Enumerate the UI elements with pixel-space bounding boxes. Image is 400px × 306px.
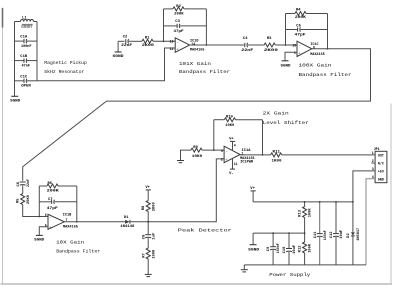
svg-text:100nF: 100nF <box>21 45 32 49</box>
svg-text:Peak Detector: Peak Detector <box>178 227 232 233</box>
svg-text:Power Supply: Power Supply <box>269 272 310 278</box>
wire IC1A output <box>240 154 271 156</box>
wire feedback right vertical IC1A <box>262 120 264 155</box>
svg-text:C8: C8 <box>142 234 146 239</box>
svg-text:2K00: 2K00 <box>152 202 156 212</box>
svg-text:C1A: C1A <box>20 36 28 40</box>
svg-text:OUT: OUT <box>378 154 384 158</box>
svg-text:C4: C4 <box>243 37 248 41</box>
svg-text:SGND: SGND <box>34 239 45 243</box>
svg-text:6: 6 <box>45 213 47 217</box>
node stage2 feedback left <box>163 40 165 42</box>
diode D1 <box>120 216 135 229</box>
svg-text:10K0: 10K0 <box>192 155 203 159</box>
svg-text:C3: C3 <box>175 20 180 24</box>
wire IC1B output <box>64 221 125 223</box>
ground SGND stage2 <box>113 41 125 59</box>
svg-text:47pF: 47pF <box>295 33 307 37</box>
wire power top rail <box>253 201 353 203</box>
svg-text:10uF: 10uF <box>340 229 344 239</box>
svg-text:R10: R10 <box>226 116 234 120</box>
svg-text:D1: D1 <box>124 216 129 220</box>
ground SGND stage3 <box>281 52 298 68</box>
svg-text:MAX4165: MAX4165 <box>190 49 205 53</box>
resistor R3 <box>264 37 279 53</box>
svg-text:47pF: 47pF <box>47 207 59 211</box>
svg-text:2K00: 2K00 <box>264 49 279 53</box>
svg-text:11: 11 <box>234 162 238 166</box>
wire feedback left vertical stage4 <box>38 186 40 217</box>
svg-text:-: - <box>177 41 179 45</box>
capacitor C1C <box>15 75 38 88</box>
diode D2 <box>347 227 361 265</box>
svg-text:IC1PWR: IC1PWR <box>240 161 254 165</box>
svg-text:22nF: 22nF <box>241 49 254 53</box>
wire tank top right <box>34 21 38 23</box>
power V+ IC1A pin4 <box>229 138 236 151</box>
svg-text:L1: L1 <box>22 16 27 20</box>
wire feedback top rail left IC1A <box>214 119 225 121</box>
page border bottom <box>1 283 393 285</box>
ground GND power supply <box>241 265 248 272</box>
svg-text:MAX4165: MAX4165 <box>63 226 79 230</box>
wire D1 to junction to IC1A riser <box>130 159 224 222</box>
svg-text:R7: R7 <box>142 253 146 258</box>
wire R1 to IC1D - input <box>153 40 175 42</box>
svg-text:101X Gain: 101X Gain <box>179 61 211 67</box>
ground SGND stage4 <box>34 227 48 243</box>
svg-text:10X Gain: 10X Gain <box>56 239 84 245</box>
ground R9 left <box>177 150 191 163</box>
svg-text:100nF: 100nF <box>277 243 281 254</box>
wire connector GND feed <box>366 179 375 265</box>
svg-text:SGND: SGND <box>10 100 21 104</box>
svg-text:R13: R13 <box>299 209 303 217</box>
svg-text:13: 13 <box>170 40 174 44</box>
svg-text:2: 2 <box>221 158 223 162</box>
svg-text:-: - <box>298 45 300 49</box>
wire feedback mid rail right stage2 <box>180 25 206 27</box>
svg-text:1N5817: 1N5817 <box>357 227 361 241</box>
svg-text:100X Gain: 100X Gain <box>299 62 332 68</box>
wire C2 to R1 <box>129 40 142 42</box>
resistor R5 <box>17 194 31 205</box>
power V+ peak detector <box>145 186 151 201</box>
wire feedback top rail right stage4 <box>58 185 77 187</box>
resistor R6 <box>47 182 60 194</box>
ground SGND power supply <box>248 233 260 252</box>
svg-text:C12: C12 <box>330 231 334 239</box>
svg-text:1uF: 1uF <box>152 232 156 240</box>
svg-text:C2: C2 <box>123 36 128 40</box>
wire feedback right vertical stage4 <box>76 186 78 222</box>
wire C4 to R3 <box>248 44 264 46</box>
capacitor C3 <box>174 20 185 34</box>
capacitor C9 <box>267 233 281 265</box>
wire tank output to IC1D + input <box>37 48 175 81</box>
op-amp IC1C <box>292 41 325 57</box>
svg-text:R8: R8 <box>142 205 146 210</box>
svg-text:GND: GND <box>378 177 384 181</box>
wire feedback mid rail right stage3 <box>301 29 328 31</box>
resistor R9 <box>191 146 203 159</box>
wire feedback mid rail right stage4 <box>55 201 77 203</box>
svg-text:100K: 100K <box>152 249 156 259</box>
node stage3 feedback right <box>327 48 329 50</box>
capacitor C10 <box>283 233 297 265</box>
power V+ supply rail stub <box>250 187 255 202</box>
wire junction to C8 <box>147 222 149 235</box>
node power rail taps <box>272 201 354 234</box>
op-amp IC1A <box>221 146 255 164</box>
svg-text:R4: R4 <box>296 9 301 13</box>
svg-text:10uF: 10uF <box>293 244 297 254</box>
node stage4 feedback left <box>38 216 40 218</box>
capacitor C7 <box>47 198 59 211</box>
svg-text:N/C: N/C <box>378 162 384 166</box>
svg-text:R1: R1 <box>145 37 150 41</box>
svg-text:3: 3 <box>372 167 374 171</box>
svg-text:V+: V+ <box>145 186 150 190</box>
svg-text:OPEN: OPEN <box>21 85 31 89</box>
svg-text:-: - <box>225 150 227 154</box>
svg-text:MAX4165: MAX4165 <box>310 53 325 57</box>
svg-text:C9: C9 <box>267 246 271 251</box>
wire feedback mid rail left stage4 <box>39 201 51 203</box>
svg-text:R2: R2 <box>176 5 181 9</box>
resistor R4 <box>295 9 307 21</box>
svg-text:4: 4 <box>234 143 236 147</box>
svg-text:R11: R11 <box>273 151 281 155</box>
wire connector +5V feed <box>353 171 375 232</box>
svg-text:-: - <box>49 216 51 220</box>
resistor R11 <box>271 151 283 164</box>
svg-text:10: 10 <box>292 43 296 47</box>
op-amp IC1B <box>45 213 79 230</box>
svg-text:Magnetic Pickup: Magnetic Pickup <box>44 60 87 66</box>
wire C6 to R5 <box>22 185 24 193</box>
wire feedback top rail right stage2 <box>184 8 206 10</box>
svg-text:R12: R12 <box>299 245 303 253</box>
svg-text:+5V: +5V <box>378 169 384 173</box>
svg-text:47pF: 47pF <box>174 30 185 34</box>
svg-text:Level Shifter: Level Shifter <box>263 120 309 126</box>
wire feedback left vertical IC1A <box>213 120 215 150</box>
svg-text:22nF: 22nF <box>27 178 31 187</box>
svg-text:1: 1 <box>372 151 374 155</box>
wire feedback right vertical stage3 <box>327 14 329 49</box>
svg-text:C6: C6 <box>17 181 21 186</box>
capacitor C5 <box>295 24 307 37</box>
svg-text:R6: R6 <box>48 182 53 186</box>
svg-text:200K: 200K <box>174 12 184 16</box>
wire feedback left vertical stage3 <box>285 14 287 46</box>
svg-text:C10: C10 <box>283 246 287 254</box>
resistor R7 <box>142 248 156 259</box>
power V- IC1A pin11 <box>229 159 238 176</box>
wire feedback left vertical stage2 <box>163 9 165 41</box>
svg-text:R3: R3 <box>267 37 272 41</box>
wire tank top <box>15 21 21 23</box>
svg-text:C5: C5 <box>296 24 301 28</box>
wire tank left rail <box>14 22 16 97</box>
capacitor C1A <box>15 36 38 49</box>
svg-text:C1C: C1C <box>20 75 28 79</box>
capacitor C1B <box>15 55 38 68</box>
svg-text:4: 4 <box>372 175 374 179</box>
capacitor C4 <box>241 37 254 53</box>
connector JP1 <box>371 147 387 183</box>
inductor L1 <box>21 16 34 30</box>
svg-text:R5: R5 <box>17 198 21 203</box>
svg-text:C7: C7 <box>48 198 53 202</box>
wire feedback top rail left stage2 <box>164 8 173 10</box>
op-amp IC1D <box>170 38 206 53</box>
svg-text:1K00: 1K00 <box>272 160 283 164</box>
svg-text:12: 12 <box>170 47 174 51</box>
wire feedback mid rail left stage2 <box>164 25 177 27</box>
ground GND peak detector <box>145 259 152 277</box>
svg-text:200K: 200K <box>295 16 307 20</box>
svg-text:3: 3 <box>221 149 223 153</box>
svg-text:Bandpass Filter: Bandpass Filter <box>299 72 352 78</box>
svg-text:SGND: SGND <box>113 55 125 59</box>
svg-text:5kHz Resonator: 5kHz Resonator <box>44 69 84 75</box>
capacitor C2 <box>121 36 133 48</box>
wire R9 to IC1A - input <box>202 149 224 151</box>
wire sgnd2 to C2 <box>118 40 124 42</box>
svg-text:2K00: 2K00 <box>142 44 155 48</box>
wire R5 to IC1B - input <box>23 205 48 217</box>
wire power bottom rail <box>244 264 366 266</box>
ground SGND tank <box>10 96 21 103</box>
svg-text:10K0: 10K0 <box>225 124 235 128</box>
svg-text:D2: D2 <box>347 233 351 238</box>
node stage2 feedback right <box>206 44 208 46</box>
resistor R8 <box>142 201 156 212</box>
svg-text:R9: R9 <box>193 146 198 150</box>
svg-text:100K: 100K <box>309 243 313 253</box>
svg-text:Bandpass Filter: Bandpass Filter <box>179 69 230 75</box>
svg-text:7: 7 <box>65 218 67 222</box>
capacitor C8 <box>142 232 156 240</box>
svg-text:6m8H: 6m8H <box>21 25 32 30</box>
resistor R12 <box>299 233 313 265</box>
capacitor C12 <box>330 202 344 265</box>
wire tank right rail <box>36 22 38 81</box>
svg-text:SGND: SGND <box>248 248 260 252</box>
svg-text:9: 9 <box>294 51 296 55</box>
svg-text:C1B: C1B <box>20 55 28 59</box>
resistor R13 <box>299 202 313 233</box>
svg-text:200K: 200K <box>47 189 60 193</box>
svg-text:Bandpass Filter: Bandpass Filter <box>56 248 100 254</box>
wire IC1D output <box>190 44 244 46</box>
wire feedback right vertical stage2 <box>205 9 207 45</box>
page border left <box>2 8 4 285</box>
resistor R2 <box>173 5 184 16</box>
svg-text:2X Gain: 2X Gain <box>263 111 289 117</box>
resistor R10 <box>224 116 235 129</box>
svg-text:1N4148: 1N4148 <box>120 225 135 229</box>
node stage3 feedback left <box>285 44 287 46</box>
svg-text:22nF: 22nF <box>121 44 133 48</box>
node stage4 feedback right <box>76 221 78 223</box>
wire feedback mid rail left stage3 <box>286 29 298 31</box>
node level shifter feedback left <box>213 149 215 151</box>
wire power mid rail SGND <box>253 232 305 234</box>
svg-text:47nF: 47nF <box>22 64 31 68</box>
node level shifter feedback right <box>262 154 264 156</box>
svg-text:C11: C11 <box>314 231 318 239</box>
page border right <box>390 104 392 285</box>
wire R3 to IC1C - input <box>275 44 297 46</box>
svg-text:JP1: JP1 <box>374 147 380 151</box>
node peak detector junction <box>147 221 149 223</box>
svg-text:20K0: 20K0 <box>27 194 31 204</box>
capacitor C11 <box>314 202 328 265</box>
svg-text:2: 2 <box>372 159 374 163</box>
wire C8 to R7 <box>147 238 149 248</box>
capacitor C6 <box>17 178 31 187</box>
wire feedback top rail right stage3 <box>306 13 327 15</box>
wire feedback top rail left stage3 <box>286 13 295 15</box>
svg-text:V-: V- <box>229 172 234 176</box>
svg-text:100nF: 100nF <box>324 230 328 241</box>
svg-text:SGND: SGND <box>281 65 292 69</box>
wire R11 to connector OUT <box>282 154 375 156</box>
wire feedback top rail left stage4 <box>39 185 47 187</box>
svg-text:100K: 100K <box>309 208 313 218</box>
wire R8 to junction <box>147 212 149 222</box>
resistor R1 <box>142 37 155 49</box>
wire IC1C output loop to 10X filter <box>23 49 371 181</box>
wire feedback top rail right IC1A <box>236 119 263 121</box>
